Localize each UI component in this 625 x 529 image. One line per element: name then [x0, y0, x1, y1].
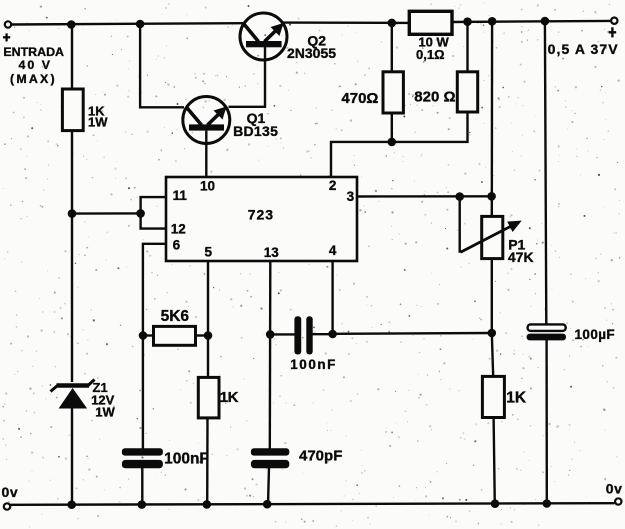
- resistor 1K pin5: [198, 377, 238, 418]
- svg-text:3: 3: [347, 189, 355, 204]
- node I bracket junction: [136, 209, 145, 218]
- wire to 1K right: [492, 333, 493, 377]
- node G output / filter cap: [541, 17, 550, 26]
- wire Q1 base to IC pin 10: [205, 131, 207, 178]
- node R5 bottom rail 1K right: [491, 499, 500, 508]
- transistor Q1 BD135: [183, 97, 278, 144]
- pin 6: [173, 237, 181, 252]
- label 0,5A 37V: [548, 27, 619, 57]
- wire top rail left: [11, 23, 243, 24]
- svg-text:(MAX): (MAX): [10, 72, 57, 86]
- node L pin13 / 100nF mid: [266, 330, 275, 339]
- svg-text:47K: 47K: [508, 249, 534, 265]
- wire pin 13 down: [269, 261, 272, 449]
- pin 10: [200, 179, 215, 194]
- svg-text:100nF: 100nF: [290, 357, 337, 372]
- node R4 bottom rail 470pF: [263, 500, 272, 509]
- svg-text:100µF: 100µF: [575, 327, 616, 342]
- svg-text:0v: 0v: [2, 484, 19, 500]
- input terminal +: [5, 21, 11, 27]
- svg-text:0,1Ω: 0,1Ω: [416, 47, 445, 62]
- svg-text:5K6: 5K6: [161, 308, 190, 325]
- capacitor C1 100nF: [122, 448, 209, 468]
- svg-text:1W: 1W: [95, 405, 115, 420]
- capacitor C2 100nF compensation: [270, 316, 337, 372]
- svg-text:100nF: 100nF: [164, 451, 209, 468]
- node J 5K6 left: [139, 331, 148, 340]
- wire current-limit net pin2: [331, 113, 392, 179]
- node M pin4 / 100nF mid right: [328, 330, 337, 339]
- wire pin 3 right: [357, 195, 492, 198]
- transistor Q2 2N3055: [240, 13, 336, 61]
- ground terminal 0V left: [2, 484, 19, 510]
- node R6 bottom rail filter cap: [543, 499, 552, 508]
- svg-text:820 Ω: 820 Ω: [414, 89, 455, 106]
- node N wiper tap: [455, 192, 464, 201]
- wire top rail to output: [452, 21, 611, 22]
- ground terminal 0V right: [606, 481, 623, 505]
- resistor 1K right: [482, 376, 527, 417]
- wire 5K6 left down to 100nF: [142, 336, 144, 450]
- node O pin3 / pot top: [487, 192, 496, 201]
- pin 5: [205, 245, 213, 260]
- wire 820R bottom to pin2 net: [392, 112, 468, 142]
- wire pin 6 to 5K6: [143, 244, 166, 336]
- svg-text:6: 6: [173, 237, 181, 252]
- wire filter cap top: [545, 21, 546, 325]
- svg-text:2: 2: [329, 178, 337, 193]
- pin 11: [173, 188, 188, 203]
- node R2 bottom rail 100nF: [138, 500, 147, 509]
- node F output / pot feed: [488, 17, 497, 26]
- node E 10W right / 820R: [463, 17, 472, 26]
- svg-text:1K: 1K: [220, 389, 239, 406]
- wire node B down: [140, 24, 184, 107]
- wire output node to pot: [491, 21, 494, 216]
- wire 1K to bottom rail: [206, 418, 209, 505]
- capacitor C3 470pF: [251, 448, 342, 469]
- svg-text:723: 723: [248, 207, 274, 223]
- wire pins 11-12 bracket: [141, 197, 166, 229]
- svg-text:470pF: 470pF: [299, 448, 342, 465]
- resistor 820R: [414, 72, 477, 112]
- svg-text:470Ω: 470Ω: [341, 90, 378, 107]
- wire 1K right to bottom rail: [494, 418, 495, 506]
- zener Z1 12V 1W: [51, 380, 116, 420]
- wire 470pF to bottom rail: [268, 467, 269, 505]
- wire pot bottom: [491, 259, 493, 334]
- node P pot bottom / 1K right: [488, 329, 497, 338]
- pin 4: [329, 243, 337, 258]
- node B input rail: [136, 20, 145, 29]
- wire Q1 emitter to Q2 base: [229, 47, 266, 107]
- svg-text:0,5 A 37V: 0,5 A 37V: [548, 41, 619, 57]
- svg-text:13: 13: [264, 245, 280, 260]
- node K 5K6 right / pin5: [204, 331, 213, 340]
- op-amp U1 723 regulator IC: [166, 177, 357, 261]
- pin 12: [171, 221, 186, 236]
- resistor 1K 1W: [62, 89, 108, 131]
- node C zener/pin11 junction: [68, 209, 77, 218]
- svg-text:5: 5: [205, 245, 213, 260]
- node A input rail: [67, 20, 76, 29]
- wire pin 5 down: [207, 261, 209, 378]
- wire pin4 to pot bottom net: [333, 332, 492, 335]
- wire node A down to R 1K1W: [71, 25, 73, 91]
- node H 470R bottom: [388, 138, 397, 147]
- svg-text:4: 4: [329, 243, 337, 258]
- resistor 10W 0,1R: [409, 11, 452, 62]
- svg-text:10: 10: [200, 179, 215, 194]
- potentiometer P1 47K: [460, 197, 534, 266]
- label ENTRADA 40V (MAX): [3, 33, 64, 85]
- resistor 470R: [341, 72, 403, 113]
- svg-text:1K: 1K: [506, 390, 527, 407]
- svg-text:12: 12: [171, 221, 186, 236]
- wire 100nF to bottom rail: [141, 467, 143, 505]
- node R1 bottom rail zener: [67, 500, 76, 509]
- svg-text:BD135: BD135: [233, 123, 278, 139]
- wire top rail right of Q2: [284, 21, 410, 24]
- resistor 5K6: [143, 308, 208, 345]
- pin 13: [264, 245, 280, 260]
- wire zener to bottom rail: [71, 407, 73, 505]
- wire pin 4 down: [331, 261, 333, 334]
- wire filter cap to bottom rail: [545, 340, 548, 504]
- wire zener node to bracket: [72, 212, 142, 215]
- svg-text:0v: 0v: [606, 481, 623, 497]
- capacitor C4 100uF electrolytic: [527, 324, 615, 341]
- pin 2: [329, 178, 337, 193]
- svg-text:1W: 1W: [88, 114, 108, 129]
- svg-text:2N3055: 2N3055: [287, 45, 336, 61]
- svg-text:11: 11: [173, 188, 188, 203]
- pin 3: [347, 189, 355, 204]
- bottom rail 0V: [10, 503, 614, 505]
- node D Q2 emitter / 470R: [388, 19, 397, 28]
- wire 470R top lead: [391, 23, 393, 72]
- wire 820R top lead: [466, 22, 468, 72]
- node R3 bottom rail 1K: [203, 500, 212, 509]
- wire R1K1W to zener junction: [71, 131, 73, 382]
- output terminal +: [611, 18, 617, 24]
- svg-text:40 V: 40 V: [19, 58, 53, 72]
